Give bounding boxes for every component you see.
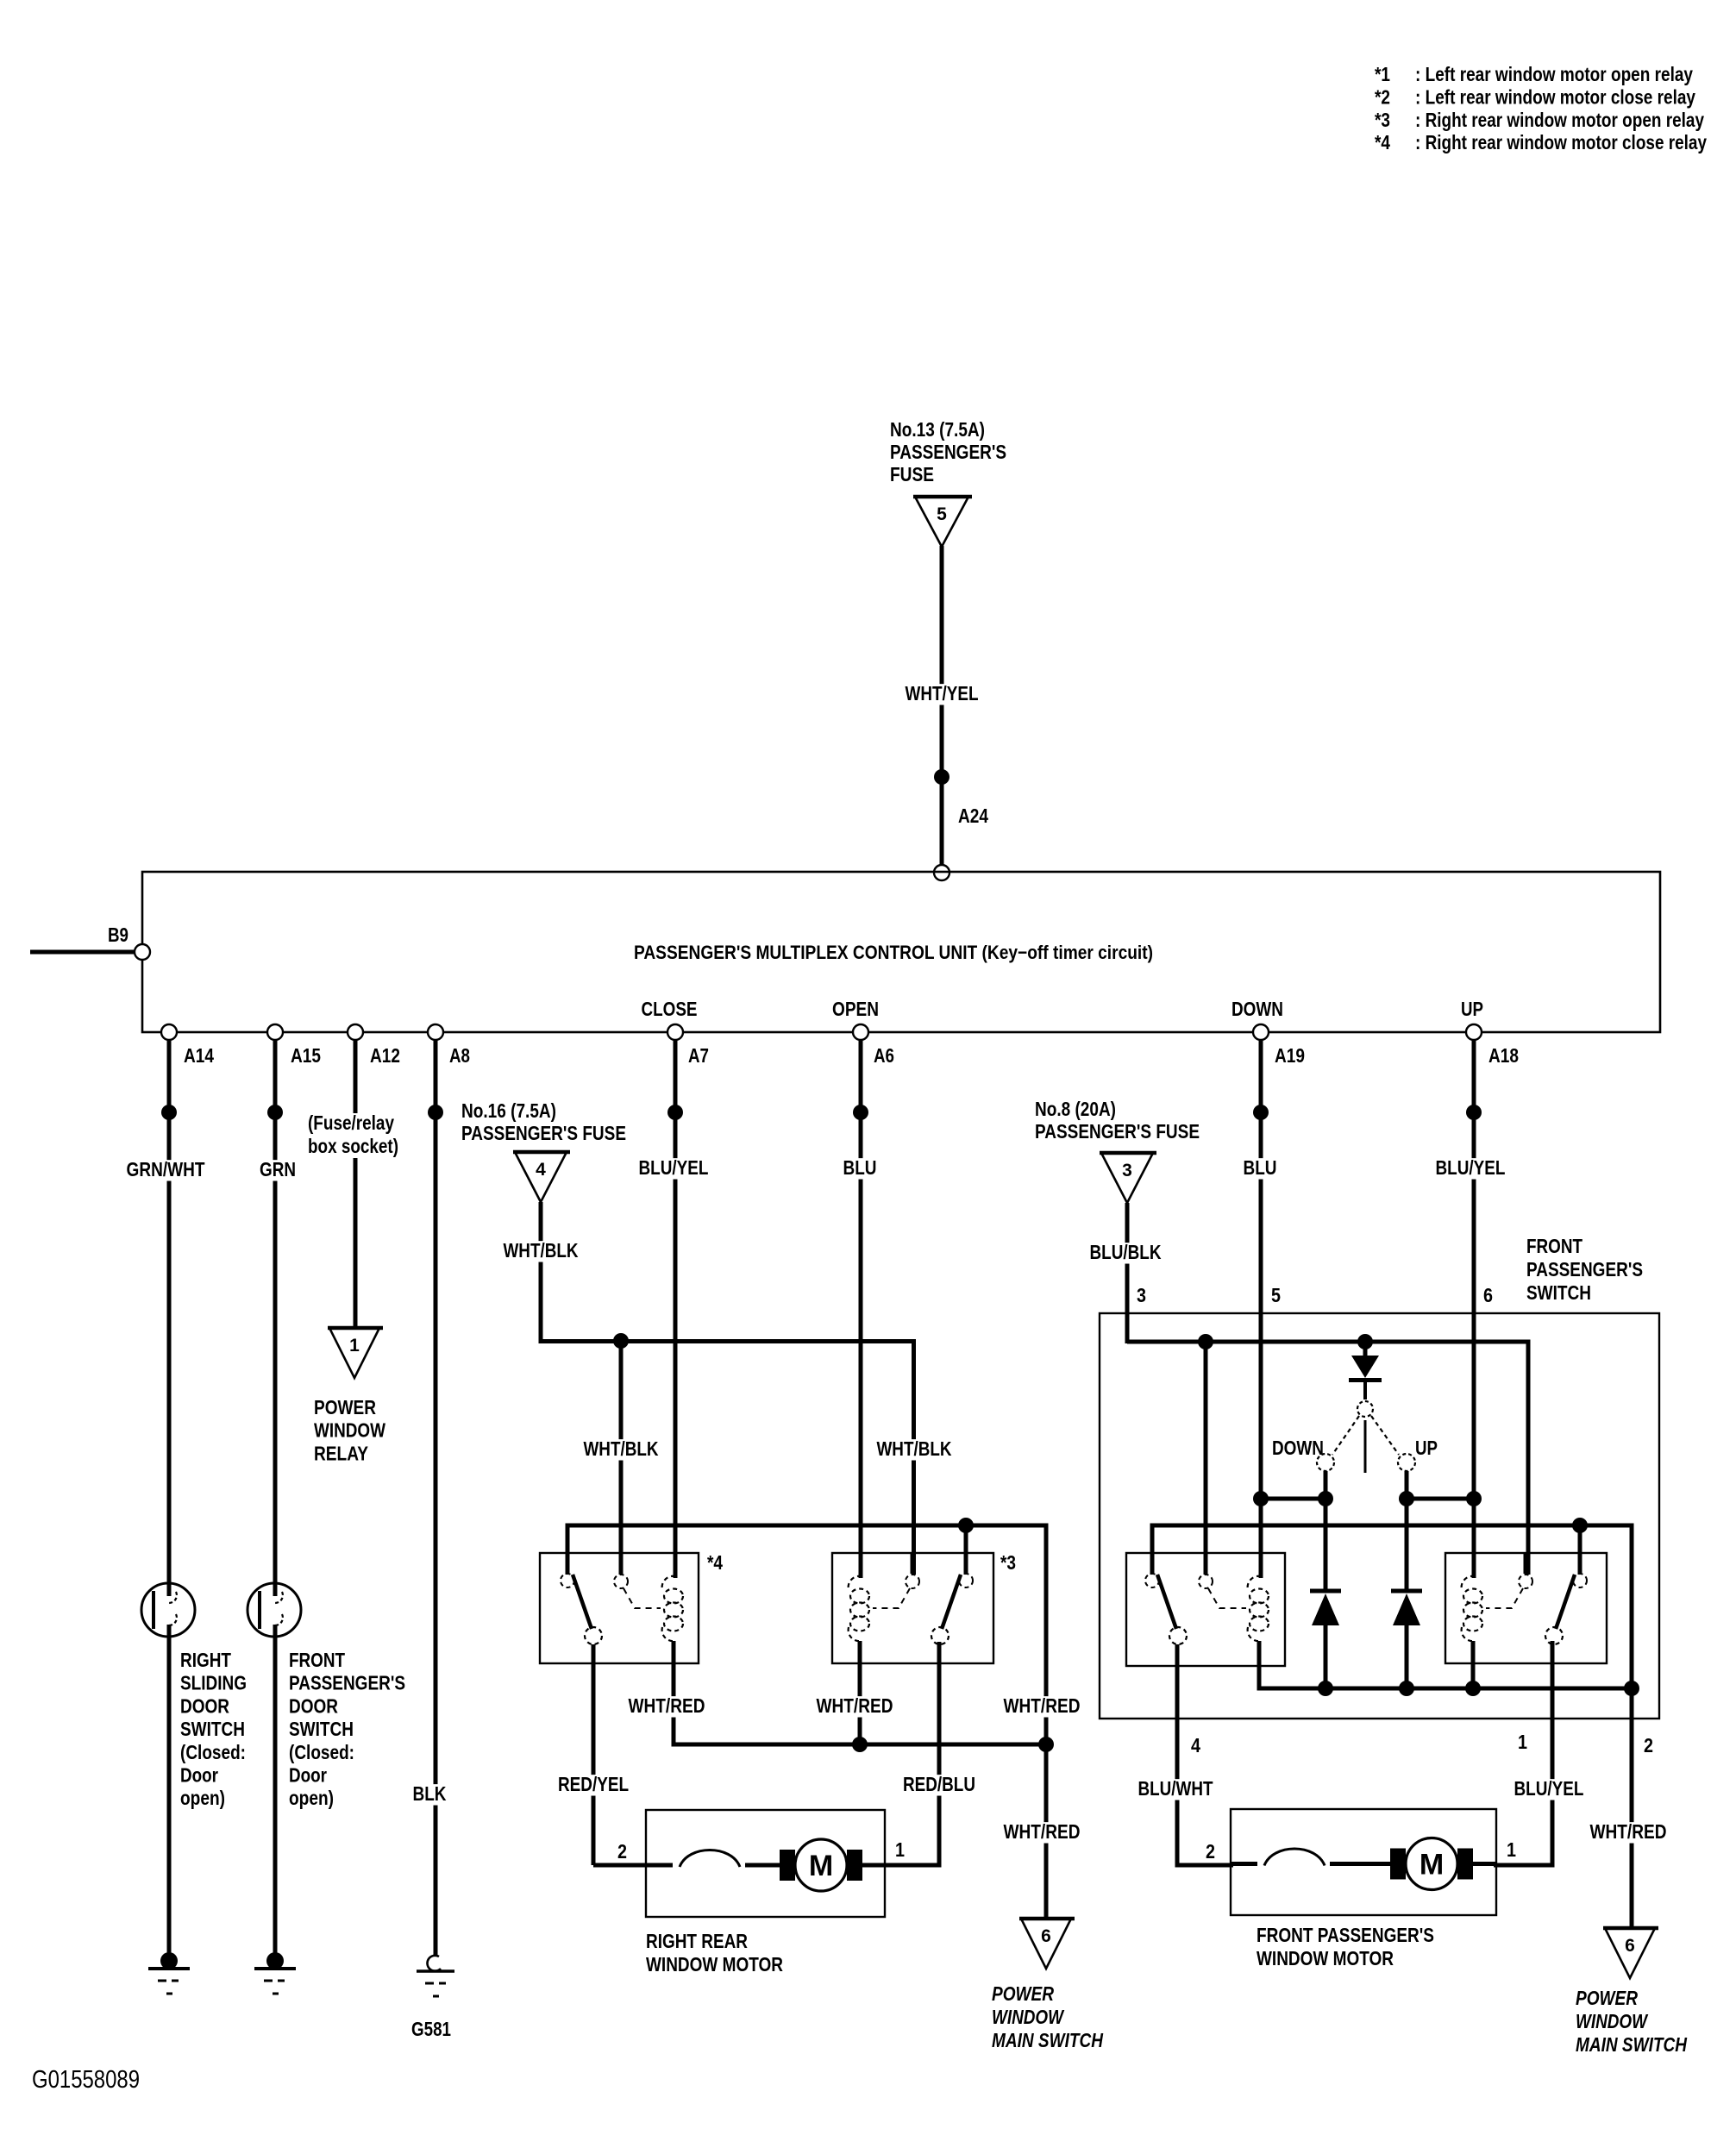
down relay (left, inside front passenger switch) bbox=[1126, 1553, 1285, 1666]
wire BLU/YEL from A18 to switch coil bbox=[1432, 1040, 1507, 1578]
svg-text:MAIN SWITCH: MAIN SWITCH bbox=[992, 2029, 1103, 2051]
svg-text:: Left rear window motor open: : Left rear window motor open relay bbox=[1415, 63, 1693, 85]
svg-text:SLIDING: SLIDING bbox=[180, 1672, 247, 1694]
svg-text:GRN/WHT: GRN/WHT bbox=[127, 1158, 205, 1180]
wire BLU/BLK bus inside switch bbox=[1127, 1342, 1528, 1575]
svg-text:BLU/YEL: BLU/YEL bbox=[639, 1156, 709, 1179]
junction on WHT/YEL wire bbox=[934, 769, 949, 785]
svg-text:WINDOW: WINDOW bbox=[314, 1419, 385, 1442]
svg-text:PASSENGER'S FUSE: PASSENGER'S FUSE bbox=[1035, 1120, 1200, 1143]
svg-text:DOOR: DOOR bbox=[289, 1694, 338, 1717]
svg-text:WINDOW: WINDOW bbox=[1576, 2010, 1649, 2032]
svg-text:DOOR: DOOR bbox=[180, 1694, 229, 1717]
svg-text:WHT/RED: WHT/RED bbox=[629, 1694, 705, 1717]
svg-text:*1: *1 bbox=[1375, 63, 1390, 85]
svg-text:WHT/YEL: WHT/YEL bbox=[906, 682, 979, 704]
svg-text:WINDOW MOTOR: WINDOW MOTOR bbox=[1257, 1947, 1394, 1969]
svg-text:*4: *4 bbox=[1375, 131, 1390, 153]
svg-text:PASSENGER'S MULTIPLEX CONTROL: PASSENGER'S MULTIPLEX CONTROL UNIT (Key−… bbox=[634, 942, 1153, 963]
svg-text:A12: A12 bbox=[370, 1044, 400, 1067]
svg-text:box socket): box socket) bbox=[308, 1135, 398, 1157]
svg-text:OPEN: OPEN bbox=[832, 998, 879, 1020]
rocker switch common contact bbox=[1332, 1401, 1399, 1473]
svg-text:A14: A14 bbox=[184, 1044, 214, 1067]
passenger's multiplex control unit box bbox=[142, 872, 1660, 1032]
fuse No.13 (7.5A) PASSENGER'S FUSE, connector 5 bbox=[890, 418, 1006, 547]
svg-text:POWER: POWER bbox=[992, 1982, 1054, 2005]
connector 6 power window main switch (right) bbox=[1603, 1928, 1658, 1978]
svg-text:1: 1 bbox=[1507, 1838, 1516, 1861]
svg-text:CLOSE: CLOSE bbox=[642, 998, 698, 1020]
wire from door switch to ground bbox=[167, 1635, 172, 1957]
svg-text:G581: G581 bbox=[411, 2018, 451, 2040]
terminal A8 bbox=[428, 1024, 470, 1067]
terminal A19 bbox=[1253, 1024, 1305, 1067]
svg-text:FUSE: FUSE bbox=[890, 463, 934, 485]
svg-text:DOWN: DOWN bbox=[1272, 1437, 1324, 1459]
wire from A12 to power window relay bbox=[354, 1040, 358, 1338]
svg-text:RED/BLU: RED/BLU bbox=[903, 1773, 975, 1795]
svg-text:BLU: BLU bbox=[843, 1156, 877, 1179]
wire GRN/WHT from A14 to right sliding door switch bbox=[124, 1040, 208, 1585]
svg-text:2: 2 bbox=[617, 1840, 627, 1863]
wire BLK from A8 to ground G581 bbox=[410, 1040, 449, 1957]
wire BLU from A6 to relay *3 coil bbox=[841, 1040, 880, 1578]
front passenger window motor bbox=[1231, 1809, 1497, 1915]
svg-text:PASSENGER'S FUSE: PASSENGER'S FUSE bbox=[461, 1122, 626, 1144]
wire DOWN contact to BLU bbox=[1253, 1471, 1333, 1506]
wire BLU/BLK from fuse 3 into switch bbox=[1087, 1203, 1163, 1343]
terminal A24 bbox=[934, 805, 988, 880]
relay *4 (right rear window motor close relay) bbox=[540, 1551, 723, 1663]
svg-text:A19: A19 bbox=[1275, 1044, 1305, 1067]
junction WHT/RED at main switch feed bbox=[1038, 1737, 1054, 1752]
svg-text:DOWN: DOWN bbox=[1231, 998, 1283, 1020]
ground (right sliding door switch) bbox=[148, 1952, 190, 1994]
terminal B9 bbox=[108, 924, 150, 960]
wire BLU/WHT from down relay switch to motor pin 2 bbox=[1135, 1644, 1233, 1865]
svg-text:A15: A15 bbox=[291, 1044, 321, 1067]
wire RED/BLU from relay *3 switch to motor pin 1 bbox=[883, 1642, 978, 1865]
svg-text:2: 2 bbox=[1644, 1734, 1653, 1756]
svg-text:SWITCH: SWITCH bbox=[180, 1718, 245, 1740]
svg-text:1: 1 bbox=[1518, 1731, 1527, 1753]
wire UP contact to BLU/YEL bbox=[1399, 1471, 1482, 1506]
ground G581 bbox=[411, 1956, 454, 2040]
wire WHT/BLK to relay *4 bbox=[580, 1341, 661, 1575]
svg-text:POWER: POWER bbox=[314, 1396, 376, 1418]
terminal A18 bbox=[1466, 1024, 1519, 1067]
wire WHT/BLK label to relay *3 bbox=[874, 1439, 954, 1460]
wire WHT/BLK horizontal feed to relays *4 and *3 bbox=[539, 1339, 916, 1575]
svg-text:WHT/BLK: WHT/BLK bbox=[877, 1437, 952, 1460]
front passenger switch label bbox=[1526, 1235, 1643, 1304]
svg-text:M: M bbox=[809, 1850, 833, 1882]
protection diode (points down) bbox=[1349, 1342, 1382, 1399]
svg-text:*4: *4 bbox=[707, 1551, 723, 1574]
diode (down side) bbox=[1310, 1499, 1341, 1688]
svg-text:3: 3 bbox=[1137, 1284, 1146, 1306]
svg-text:BLU: BLU bbox=[1244, 1156, 1277, 1179]
wire: relay common feed to power window main switch bbox=[567, 1525, 1046, 1929]
junction to protection diode bbox=[1357, 1334, 1373, 1349]
connector 6 power window main switch (left) bbox=[1019, 1919, 1075, 1969]
svg-text:(Closed:: (Closed: bbox=[180, 1741, 246, 1763]
svg-text:No.8 (20A): No.8 (20A) bbox=[1035, 1098, 1116, 1120]
svg-text:RIGHT REAR: RIGHT REAR bbox=[646, 1930, 748, 1952]
svg-text:Door: Door bbox=[180, 1764, 218, 1787]
svg-text:POWER: POWER bbox=[1576, 1987, 1638, 2009]
svg-text:WINDOW: WINDOW bbox=[992, 2006, 1065, 2028]
wire RED/YEL from relay *4 switch to motor pin 2 bbox=[555, 1644, 631, 1865]
svg-text:G01558089: G01558089 bbox=[32, 2066, 140, 2094]
svg-text:5: 5 bbox=[937, 504, 947, 524]
svg-text:FRONT PASSENGER'S: FRONT PASSENGER'S bbox=[1257, 1924, 1434, 1946]
svg-text:open): open) bbox=[289, 1787, 334, 1809]
wire BLU/YEL from A7 to relay *4 coil bbox=[636, 1040, 711, 1578]
front passenger switch box bbox=[1100, 1313, 1659, 1719]
wire WHT/YEL from fuse 5 to A24 bbox=[902, 546, 981, 869]
power window main switch label (left) bbox=[992, 1982, 1103, 2051]
terminal A14 bbox=[161, 1024, 214, 1067]
svg-text:*2: *2 bbox=[1375, 85, 1390, 108]
wire to terminal B9 bbox=[30, 950, 138, 955]
junction feed to right relay switch bbox=[1572, 1518, 1588, 1533]
junction feed to relay *3 switch bbox=[958, 1518, 974, 1533]
wire to ground bbox=[273, 1635, 278, 1957]
svg-text:*3: *3 bbox=[1000, 1551, 1016, 1574]
wire BLU/YEL from up relay switch to motor pin 1 bbox=[1494, 1641, 1587, 1865]
svg-text:6: 6 bbox=[1625, 1936, 1635, 1956]
svg-text:5: 5 bbox=[1271, 1284, 1281, 1306]
right rear window motor label bbox=[646, 1930, 783, 1976]
terminal A6 bbox=[853, 1024, 894, 1067]
svg-text:BLU/YEL: BLU/YEL bbox=[1514, 1777, 1584, 1800]
right rear window motor bbox=[646, 1810, 886, 1917]
wire WHT/RED labels on main switch feed bbox=[1001, 1694, 1083, 1844]
svg-text:WHT/BLK: WHT/BLK bbox=[584, 1437, 659, 1460]
svg-text:(Fuse/relay: (Fuse/relay bbox=[308, 1111, 394, 1134]
svg-text:FRONT: FRONT bbox=[1526, 1235, 1582, 1257]
terminal A7 bbox=[667, 1024, 709, 1067]
right sliding door switch bbox=[141, 1583, 195, 1637]
ground (front passenger door switch) bbox=[254, 1952, 296, 1994]
svg-text:SWITCH: SWITCH bbox=[1526, 1281, 1591, 1304]
svg-text:1: 1 bbox=[895, 1838, 905, 1861]
connector 1 power window relay bbox=[328, 1328, 383, 1378]
svg-text:No.16 (7.5A): No.16 (7.5A) bbox=[461, 1099, 556, 1122]
svg-text:WINDOW MOTOR: WINDOW MOTOR bbox=[646, 1953, 783, 1976]
terminal A12 bbox=[348, 1024, 400, 1067]
front passenger door switch bbox=[248, 1583, 301, 1637]
diode (up side) bbox=[1391, 1499, 1422, 1688]
svg-text:A7: A7 bbox=[688, 1044, 709, 1067]
front passenger door switch label bbox=[289, 1649, 405, 1809]
svg-text:*3: *3 bbox=[1375, 109, 1390, 131]
svg-text:SWITCH: SWITCH bbox=[289, 1718, 354, 1740]
svg-text:No.13 (7.5A): No.13 (7.5A) bbox=[890, 418, 985, 441]
svg-text:UP: UP bbox=[1415, 1437, 1438, 1459]
junction to left relay middle pin bbox=[1198, 1334, 1213, 1349]
svg-text:: Right rear window motor open: : Right rear window motor open relay bbox=[1415, 109, 1704, 131]
svg-text:RED/YEL: RED/YEL bbox=[558, 1773, 629, 1795]
svg-text:GRN: GRN bbox=[260, 1158, 296, 1180]
svg-text:4: 4 bbox=[1191, 1734, 1200, 1756]
wire to right relay switch pin bbox=[1578, 1525, 1582, 1575]
relay *3 (right rear window motor open relay) bbox=[832, 1551, 1016, 1663]
svg-text:A6: A6 bbox=[874, 1044, 894, 1067]
svg-text:Door: Door bbox=[289, 1764, 327, 1787]
terminal A15 bbox=[267, 1024, 321, 1067]
svg-text:B9: B9 bbox=[108, 924, 128, 946]
svg-text:2: 2 bbox=[1206, 1840, 1215, 1863]
svg-text:PASSENGER'S: PASSENGER'S bbox=[1526, 1258, 1643, 1281]
note fuse/relay box socket bbox=[305, 1111, 402, 1158]
svg-text:FRONT: FRONT bbox=[289, 1649, 345, 1671]
wire WHT/RED from relay *3 coil bbox=[814, 1641, 896, 1744]
fuse No.8 (20A) PASSENGER'S FUSE, connector 3 bbox=[1035, 1098, 1200, 1203]
svg-text:4: 4 bbox=[536, 1160, 546, 1180]
svg-text:WHT/BLK: WHT/BLK bbox=[504, 1239, 579, 1262]
up relay (right, inside front passenger switch) bbox=[1445, 1553, 1607, 1663]
svg-text:BLK: BLK bbox=[413, 1782, 447, 1805]
right sliding door switch label bbox=[180, 1649, 247, 1809]
power window relay label bbox=[314, 1396, 385, 1464]
power window main switch label (right) bbox=[1576, 1987, 1687, 2056]
wire to relay *3 switch pin bbox=[964, 1525, 968, 1575]
svg-text:MAIN SWITCH: MAIN SWITCH bbox=[1576, 2033, 1687, 2056]
wire into motor pin 2 bbox=[593, 1863, 649, 1868]
svg-text:: Right rear window motor clos: : Right rear window motor close relay bbox=[1415, 131, 1707, 153]
svg-text:WHT/RED: WHT/RED bbox=[1004, 1820, 1081, 1843]
svg-text:WHT/RED: WHT/RED bbox=[1590, 1820, 1667, 1843]
svg-text:RIGHT: RIGHT bbox=[180, 1649, 231, 1671]
svg-text:PASSENGER'S: PASSENGER'S bbox=[890, 441, 1006, 463]
svg-text:BLU/YEL: BLU/YEL bbox=[1436, 1156, 1506, 1179]
wire BLU from A19 to switch coil bbox=[1241, 1040, 1280, 1578]
wire: switch common feed to power window main switch (right) bbox=[1152, 1525, 1632, 1938]
svg-text:M: M bbox=[1420, 1849, 1444, 1882]
wire: coil/diode return bus bbox=[1259, 1641, 1639, 1696]
UP contact bbox=[1398, 1437, 1438, 1471]
junction WHT/BLK branch bbox=[613, 1333, 629, 1349]
svg-text:WHT/RED: WHT/RED bbox=[817, 1694, 893, 1717]
wire WHT/RED to main switch (right) bbox=[1588, 1822, 1670, 1843]
wire WHT/RED from relay *4 coil bbox=[626, 1641, 1046, 1744]
svg-text:RELAY: RELAY bbox=[314, 1442, 368, 1464]
svg-text:UP: UP bbox=[1461, 998, 1483, 1020]
wire GRN from A15 to front passenger door switch bbox=[257, 1040, 298, 1585]
svg-text:A18: A18 bbox=[1488, 1044, 1519, 1067]
fuse No.16 (7.5A) PASSENGER'S FUSE, connector 4 bbox=[461, 1099, 626, 1202]
svg-text:A8: A8 bbox=[449, 1044, 470, 1067]
svg-text:6: 6 bbox=[1041, 1926, 1051, 1946]
svg-text:PASSENGER'S: PASSENGER'S bbox=[289, 1672, 405, 1694]
svg-text:A24: A24 bbox=[958, 805, 988, 827]
DOWN contact bbox=[1272, 1437, 1334, 1471]
junction WHT/RED at relay *3 coil bbox=[852, 1737, 868, 1752]
svg-text:(Closed:: (Closed: bbox=[289, 1741, 354, 1763]
svg-text:BLU/WHT: BLU/WHT bbox=[1138, 1777, 1213, 1800]
wire to left relay middle pin bbox=[1204, 1342, 1208, 1575]
svg-text:6: 6 bbox=[1483, 1284, 1493, 1306]
svg-text:: Left rear window motor close: : Left rear window motor close relay bbox=[1415, 85, 1695, 108]
legend: relay notes bbox=[1375, 63, 1707, 153]
wire WHT/BLK from fuse 4 bbox=[500, 1202, 580, 1343]
svg-text:3: 3 bbox=[1122, 1161, 1132, 1180]
svg-text:1: 1 bbox=[349, 1336, 360, 1356]
svg-text:BLU/BLK: BLU/BLK bbox=[1090, 1241, 1162, 1263]
svg-text:WHT/RED: WHT/RED bbox=[1004, 1694, 1081, 1717]
front passenger window motor label bbox=[1257, 1924, 1434, 1969]
svg-text:open): open) bbox=[180, 1787, 225, 1809]
